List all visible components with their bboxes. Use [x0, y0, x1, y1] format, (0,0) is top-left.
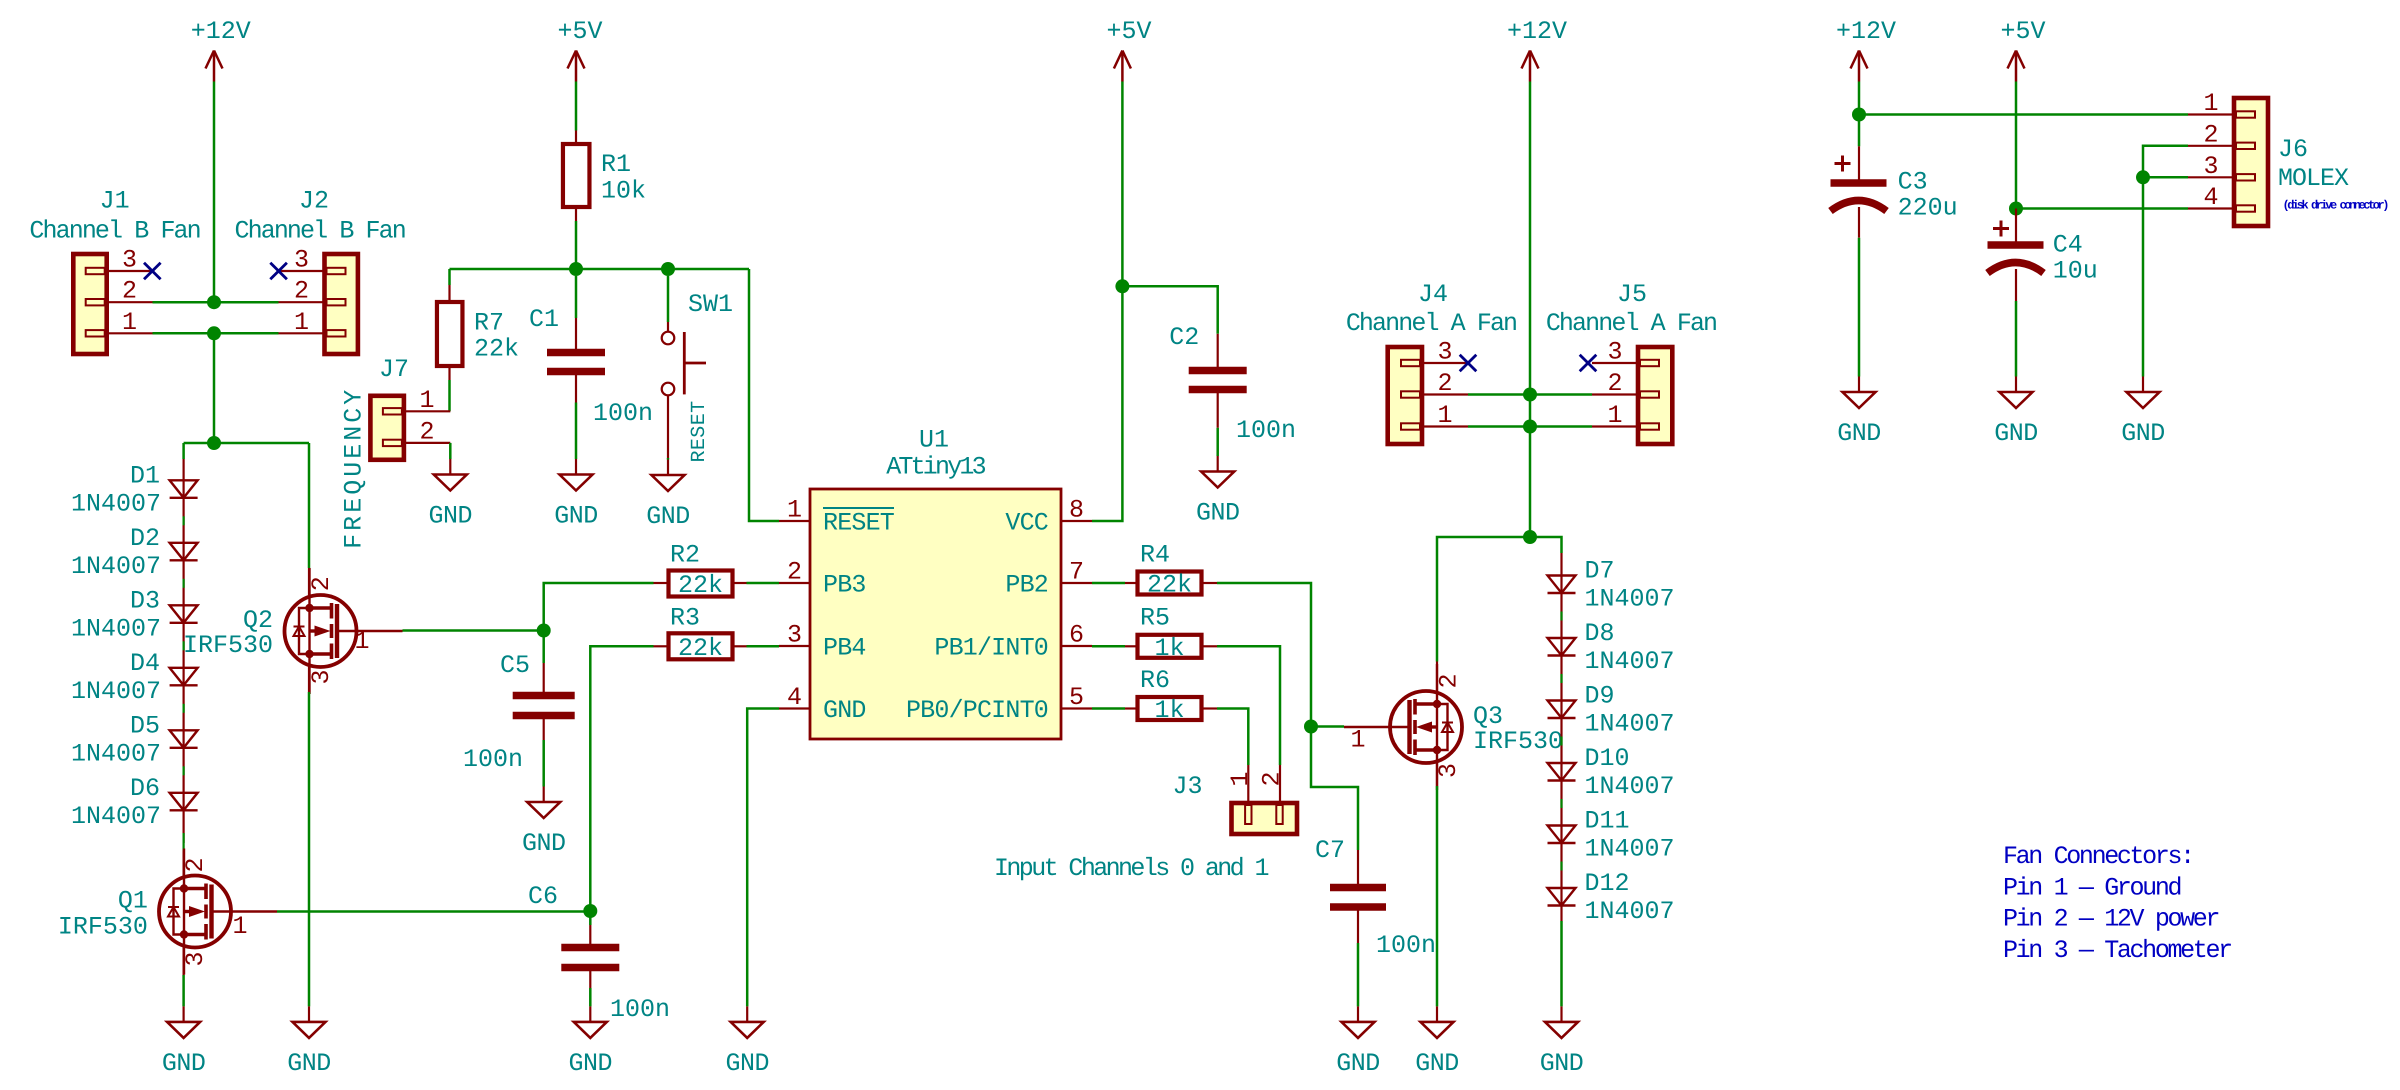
- svg-text:3: 3: [1607, 338, 1622, 367]
- svg-text:RESET: RESET: [688, 400, 711, 462]
- wire J6 pin2 down: [2143, 146, 2188, 178]
- svg-text:2: 2: [787, 558, 802, 587]
- wire C1 bottom to GND: [575, 372, 577, 403]
- wire node to R7: [448, 269, 451, 285]
- svg-text:GND: GND: [1196, 499, 1240, 528]
- svg-text:2: 2: [294, 277, 309, 306]
- svg-text:1N4007: 1N4007: [1585, 647, 1675, 676]
- svg-text:(disk drive connector): (disk drive connector): [2283, 199, 2389, 213]
- svg-text:GND: GND: [522, 829, 566, 858]
- svg-text:C2: C2: [1169, 323, 1199, 352]
- svg-text:PB1/INT0: PB1/INT0: [934, 634, 1048, 663]
- wire D6 to Q1 drain: [183, 833, 185, 851]
- junction C5 node: [537, 624, 551, 638]
- svg-text:100n: 100n: [610, 995, 670, 1024]
- svg-text:Channel A Fan: Channel A Fan: [1346, 309, 1516, 338]
- svg-text:GND: GND: [287, 1049, 331, 1078]
- no-connect J2 pin 3: [270, 263, 287, 280]
- connector J2: [325, 254, 358, 354]
- svg-text:1N4007: 1N4007: [1585, 897, 1675, 926]
- svg-text:1: 1: [1350, 726, 1365, 755]
- svg-text:VCC: VCC: [1005, 509, 1048, 538]
- wire node to C5: [542, 631, 545, 664]
- capacitor C2 100n: [1189, 371, 1247, 390]
- svg-text:D2: D2: [130, 524, 160, 553]
- svg-text:C4: C4: [2053, 231, 2083, 260]
- wire Q2 gate to C5 node: [403, 629, 544, 632]
- connector J5: [1638, 347, 1672, 444]
- svg-text:PB2: PB2: [1005, 571, 1048, 600]
- svg-text:1N4007: 1N4007: [71, 614, 161, 643]
- wire node to C4: [2015, 209, 2017, 246]
- wire to J6 pin1: [1859, 113, 2188, 116]
- wire node to U1 RESET: [749, 269, 779, 521]
- svg-text:1: 1: [419, 386, 434, 415]
- connector J3: [1232, 803, 1298, 834]
- wire R1 to node: [575, 207, 577, 221]
- power +5V (R1 rail): [568, 51, 585, 82]
- ground GND (J7): [429, 459, 473, 531]
- resistor R7 22k: [437, 302, 463, 366]
- junction C4 node: [2009, 202, 2023, 216]
- svg-text:1N4007: 1N4007: [1585, 835, 1675, 864]
- junction SW1: [661, 262, 675, 276]
- U1 pin 1: [779, 520, 810, 522]
- svg-text:D1: D1: [130, 461, 160, 490]
- wire C3 to GND: [1858, 207, 1860, 238]
- svg-text:22k: 22k: [1147, 571, 1192, 600]
- svg-text:J5: J5: [1617, 280, 1647, 309]
- wire Q1 source to GND: [183, 947, 185, 975]
- diode D4 1N4007: [170, 668, 198, 686]
- resistor R6 1k: [1138, 697, 1202, 720]
- ground GND (C5): [522, 787, 566, 859]
- wire Q2 drain pin: [308, 568, 310, 596]
- wire branch to C2: [1122, 286, 1217, 334]
- svg-text:2: 2: [307, 576, 336, 591]
- svg-text:100n: 100n: [1376, 931, 1436, 960]
- wire diode chain segments (left): [183, 459, 185, 843]
- wire R7 to J7 pin1: [448, 366, 450, 380]
- svg-text:2: 2: [122, 277, 137, 306]
- svg-text:Channel B Fan: Channel B Fan: [29, 217, 199, 246]
- diode D6 1N4007: [170, 793, 198, 811]
- U1 pin 3: [779, 645, 810, 647]
- svg-text:7: 7: [1069, 558, 1084, 587]
- diode D2 1N4007: [170, 543, 198, 561]
- svg-text:J4: J4: [1418, 280, 1448, 309]
- svg-text:GND: GND: [162, 1049, 206, 1078]
- wire to D1: [182, 443, 185, 459]
- svg-text:22k: 22k: [678, 634, 723, 663]
- wire SW1 to GND: [667, 458, 670, 460]
- wire rail to U1 VCC: [1092, 286, 1122, 521]
- wire C2 to GND: [1217, 390, 1219, 428]
- svg-text:GND: GND: [1994, 419, 2038, 448]
- resistor R3 22k: [669, 633, 733, 659]
- svg-text:U1: U1: [919, 426, 949, 455]
- wire Q1 gate to C6 node: [277, 910, 590, 913]
- wire U1 GND pin4: [747, 709, 779, 1007]
- connector J4: [1388, 347, 1422, 444]
- wire to Q2 drain: [308, 443, 311, 568]
- svg-text:PB0/PCINT0: PB0/PCINT0: [906, 696, 1048, 725]
- svg-text:3: 3: [181, 951, 210, 966]
- svg-text:220u: 220u: [1898, 194, 1958, 223]
- ground GND (C2): [1196, 456, 1240, 528]
- svg-text:GND: GND: [1415, 1049, 1459, 1078]
- transistor Q2 IRF530: [285, 568, 403, 694]
- svg-text:J1: J1: [100, 187, 130, 216]
- connector J7: [370, 396, 404, 460]
- svg-text:1k: 1k: [1154, 696, 1184, 725]
- ground GND (SW1): [646, 460, 690, 532]
- svg-text:D6: D6: [130, 774, 160, 803]
- svg-text:R2: R2: [670, 541, 700, 570]
- svg-text:3: 3: [787, 621, 802, 650]
- svg-text:2: 2: [419, 417, 434, 446]
- diode D7 1N4007: [1548, 576, 1576, 594]
- svg-text:1: 1: [232, 912, 247, 941]
- svg-text:D9: D9: [1585, 682, 1615, 711]
- svg-text:Fan Connectors:: Fan Connectors:: [2003, 842, 2193, 871]
- wire R6 to J3 pin1: [1217, 709, 1248, 766]
- power +12V (channel A rail): [1522, 51, 1539, 82]
- wire branch horizontal: [184, 442, 309, 445]
- svg-text:D5: D5: [130, 711, 160, 740]
- U1 pin 5: [1061, 707, 1092, 709]
- svg-text:100n: 100n: [463, 745, 523, 774]
- wire U1 to R5: [1092, 645, 1125, 648]
- svg-text:FREQUENCY: FREQUENCY: [340, 387, 369, 549]
- svg-text:10k: 10k: [601, 176, 646, 205]
- svg-text:3: 3: [122, 246, 137, 275]
- junction rail/pin1: [207, 326, 221, 340]
- wire C1 top: [575, 276, 578, 318]
- svg-text:GND: GND: [1540, 1049, 1584, 1078]
- svg-text:1N4007: 1N4007: [71, 677, 161, 706]
- wire C5 to GND: [543, 716, 545, 741]
- svg-text:Pin 2 — 12V power: Pin 2 — 12V power: [2003, 905, 2218, 934]
- wire R5 to J3 pin2: [1217, 646, 1280, 765]
- svg-text:D7: D7: [1585, 557, 1615, 586]
- svg-text:1: 1: [787, 496, 802, 525]
- svg-text:3: 3: [294, 246, 309, 275]
- transistor Q3 IRF530: [1344, 664, 1462, 790]
- svg-text:1N4007: 1N4007: [1585, 710, 1675, 739]
- wire R4 to Q3 gate node: [1217, 583, 1311, 727]
- junction R1/C1: [569, 262, 583, 276]
- svg-text:+5V: +5V: [557, 17, 602, 46]
- connector J1: [73, 254, 106, 354]
- capacitor C7 100n: [1330, 888, 1386, 908]
- svg-text:1: 1: [1226, 771, 1255, 786]
- svg-text:C7: C7: [1315, 836, 1345, 865]
- svg-text:Channel B Fan: Channel B Fan: [235, 217, 405, 246]
- svg-text:1k: 1k: [1154, 634, 1184, 663]
- ground GND (U1): [725, 1006, 769, 1078]
- svg-text:D4: D4: [130, 649, 160, 678]
- svg-text:J2: J2: [299, 187, 329, 216]
- wire node down to C7: [1311, 727, 1358, 851]
- wire R2 left to C5 node: [544, 583, 654, 631]
- wire +5V rail: [1121, 82, 1124, 287]
- junction diode branch: [207, 436, 221, 450]
- svg-text:1: 1: [354, 627, 369, 656]
- diode D12 1N4007: [1548, 888, 1576, 906]
- capacitor C5 100n: [513, 696, 575, 716]
- svg-text:2: 2: [1607, 369, 1622, 398]
- junction Q3 gate node: [1304, 720, 1318, 734]
- no-connect J4 pin 3: [1460, 355, 1477, 372]
- svg-text:Channel A Fan: Channel A Fan: [1546, 309, 1716, 338]
- svg-text:22k: 22k: [678, 571, 723, 600]
- switch SW1 RESET: [667, 276, 670, 322]
- svg-text:3: 3: [2203, 152, 2218, 181]
- svg-text:1N4007: 1N4007: [71, 802, 161, 831]
- svg-text:100n: 100n: [593, 399, 653, 428]
- svg-text:Pin 3 — Tachometer: Pin 3 — Tachometer: [2003, 936, 2231, 965]
- svg-text:R6: R6: [1140, 666, 1170, 695]
- junction rail/pin2: [207, 295, 221, 309]
- svg-text:C1: C1: [529, 305, 559, 334]
- wire node horizontal: [450, 268, 750, 271]
- svg-text:1N4007: 1N4007: [71, 739, 161, 768]
- wire R3 right to U1 PB4: [747, 645, 780, 648]
- svg-text:Pin 1 — Ground: Pin 1 — Ground: [2003, 873, 2180, 902]
- wire node to C6: [589, 911, 592, 925]
- ground GND (diode chain): [1540, 1006, 1584, 1078]
- power +12V (molex): [1851, 51, 1868, 82]
- diode D1 1N4007: [170, 480, 198, 498]
- svg-text:6: 6: [1069, 621, 1084, 650]
- svg-text:J6: J6: [2278, 135, 2308, 164]
- capacitor C1 100n: [547, 353, 605, 372]
- svg-text:3: 3: [1437, 338, 1452, 367]
- capacitor C4 10u (polarized): [1988, 245, 2044, 273]
- svg-text:3: 3: [1434, 763, 1463, 778]
- svg-text:+5V: +5V: [1106, 17, 1151, 46]
- svg-text:+12V: +12V: [1507, 17, 1567, 46]
- svg-text:GND: GND: [823, 696, 866, 725]
- svg-text:PB4: PB4: [823, 634, 866, 663]
- svg-text:R1: R1: [601, 150, 631, 179]
- power +5V (molex): [2008, 51, 2025, 82]
- U1 pin 6: [1061, 645, 1092, 647]
- svg-text:22k: 22k: [474, 335, 519, 364]
- junction rail/pin2 (A): [1523, 388, 1537, 402]
- wire branch to Q3 drain: [1437, 537, 1530, 662]
- svg-text:PB3: PB3: [823, 571, 866, 600]
- svg-text:GND: GND: [554, 502, 598, 531]
- svg-text:1: 1: [2203, 89, 2218, 118]
- connector J6 MOLEX: [2234, 98, 2268, 226]
- resistor R5 1k: [1138, 635, 1202, 658]
- diode D5 1N4007: [170, 730, 198, 748]
- svg-text:4: 4: [2203, 183, 2218, 212]
- svg-text:D8: D8: [1585, 619, 1615, 648]
- no-connect J5 pin 3: [1580, 355, 1597, 372]
- ground GND (C7): [1336, 1006, 1380, 1078]
- svg-text:Q1: Q1: [118, 887, 148, 916]
- svg-text:D3: D3: [130, 586, 160, 615]
- U1 pin 2: [779, 582, 810, 584]
- svg-text:IRF530: IRF530: [183, 631, 273, 660]
- wire J4.2-J5.2: [1468, 393, 1592, 396]
- svg-text:J7: J7: [379, 355, 409, 384]
- svg-text:2: 2: [1258, 771, 1287, 786]
- svg-text:Input Channels 0 and 1: Input Channels 0 and 1: [994, 854, 1268, 883]
- svg-text:+5V: +5V: [2000, 17, 2045, 46]
- resistor R1 10k: [563, 144, 590, 207]
- power +12V (left rail): [206, 51, 223, 82]
- svg-text:GND: GND: [2121, 419, 2165, 448]
- capacitor C6 100n: [561, 948, 619, 968]
- U1 pin 7: [1061, 582, 1092, 584]
- IC U1 ATtiny13: [810, 489, 1061, 739]
- ground GND (C3): [1837, 377, 1881, 449]
- wire R3 left to C6 node: [590, 646, 653, 911]
- wire node to C3: [1858, 115, 1861, 147]
- wire J1.1-J2.1: [153, 332, 279, 335]
- wire Q3 source to GND: [1436, 763, 1438, 786]
- wire R2 right to U1 PB3: [747, 582, 780, 585]
- svg-text:GND: GND: [725, 1049, 769, 1078]
- svg-text:D10: D10: [1585, 744, 1630, 773]
- svg-text:1N4007: 1N4007: [71, 489, 161, 518]
- svg-text:C6: C6: [528, 882, 558, 911]
- svg-text:2: 2: [181, 857, 210, 872]
- wire J1.2-J2.2: [153, 301, 279, 304]
- svg-text:RESET: RESET: [823, 509, 895, 538]
- power +5V (VCC rail): [1114, 51, 1131, 82]
- wire J7 pin2 to GND: [449, 443, 452, 459]
- svg-text:D12: D12: [1585, 869, 1630, 898]
- svg-text:1N4007: 1N4007: [71, 552, 161, 581]
- svg-text:D11: D11: [1585, 807, 1630, 836]
- svg-text:4: 4: [787, 683, 802, 712]
- U1 pin 4: [779, 707, 810, 709]
- ground GND (Q1 source): [162, 1006, 206, 1078]
- svg-text:J3: J3: [1172, 772, 1202, 801]
- ground GND (C4): [1994, 377, 2038, 449]
- wire +12V rail down: [1529, 82, 1532, 538]
- svg-text:C5: C5: [500, 651, 530, 680]
- wire branch to D7: [1530, 537, 1562, 553]
- resistor R2 22k: [669, 571, 733, 597]
- wire Q2 source to GND: [308, 666, 310, 692]
- svg-text:ATtiny13: ATtiny13: [886, 453, 985, 482]
- svg-text:100n: 100n: [1236, 416, 1296, 445]
- svg-text:R7: R7: [474, 309, 504, 338]
- wire U1 to R4: [1092, 582, 1125, 585]
- diode D11 1N4007: [1548, 826, 1576, 844]
- resistor R4 22k: [1138, 572, 1202, 595]
- svg-text:1: 1: [1607, 401, 1622, 430]
- svg-text:IRF530: IRF530: [58, 912, 148, 941]
- svg-text:8: 8: [1069, 496, 1084, 525]
- junction Q3/diode branch: [1523, 530, 1537, 544]
- wire +5V rail to C4: [2015, 82, 2018, 209]
- junction C3 node: [1852, 108, 1866, 122]
- capacitor C3 220u (polarized): [1831, 183, 1887, 211]
- svg-text:5: 5: [1069, 683, 1084, 712]
- svg-text:1: 1: [294, 308, 309, 337]
- wire node to Q3 gate: [1311, 725, 1344, 728]
- svg-text:+12V: +12V: [191, 17, 251, 46]
- svg-text:IRF530: IRF530: [1473, 727, 1563, 756]
- diode D10 1N4007: [1548, 763, 1576, 781]
- svg-text:GND: GND: [569, 1049, 613, 1078]
- junction rail/pin1 (A): [1523, 420, 1537, 434]
- wire to GND (J6): [2142, 177, 2145, 376]
- svg-text:+12V: +12V: [1836, 17, 1896, 46]
- svg-text:R5: R5: [1140, 604, 1170, 633]
- transistor Q1 IRF530: [159, 849, 277, 975]
- wire to J6 pin4: [2016, 207, 2188, 210]
- wire C4 to GND: [2015, 269, 2017, 301]
- svg-text:2: 2: [1437, 369, 1452, 398]
- svg-text:1: 1: [122, 308, 137, 337]
- wire C6 to GND: [589, 968, 591, 989]
- svg-text:GND: GND: [646, 502, 690, 531]
- diode D3 1N4007: [170, 605, 198, 623]
- wire diode chain segments (right): [1560, 553, 1562, 921]
- wire +5V to R1: [575, 82, 578, 131]
- diode D9 1N4007: [1548, 701, 1576, 719]
- junction pin2/pin3: [2136, 170, 2150, 184]
- junction C2 branch: [1115, 279, 1129, 293]
- U1 pin 8: [1061, 520, 1092, 522]
- ground GND (J6): [2121, 377, 2165, 449]
- svg-text:R4: R4: [1140, 541, 1170, 570]
- ground GND (Q3 source): [1415, 1006, 1459, 1078]
- svg-text:GND: GND: [1336, 1049, 1380, 1078]
- wire J6 pin3: [2143, 176, 2188, 179]
- svg-text:2: 2: [2203, 120, 2218, 149]
- no-connect J1 pin 3: [144, 263, 161, 280]
- svg-text:1N4007: 1N4007: [1585, 772, 1675, 801]
- wire rail down to diode branch: [213, 333, 216, 443]
- ground GND (C1): [554, 459, 598, 531]
- svg-text:1: 1: [1437, 401, 1452, 430]
- svg-text:SW1: SW1: [688, 290, 733, 319]
- svg-text:C3: C3: [1898, 168, 1928, 197]
- svg-text:R3: R3: [670, 604, 700, 633]
- svg-text:3: 3: [307, 669, 336, 684]
- svg-text:GND: GND: [429, 502, 473, 531]
- wire +12V to C3 node: [1858, 82, 1861, 115]
- svg-text:MOLEX: MOLEX: [2278, 164, 2349, 193]
- ground GND (C6): [569, 1006, 613, 1078]
- svg-text:GND: GND: [1837, 419, 1881, 448]
- svg-text:2: 2: [1434, 673, 1463, 688]
- wire J4.1-J5.1: [1468, 425, 1592, 428]
- ground GND (Q2 source): [287, 1006, 331, 1078]
- wire D12 to GND: [1560, 921, 1563, 1006]
- svg-text:10u: 10u: [2053, 257, 2098, 286]
- wire U1 to R6: [1092, 707, 1125, 710]
- wire C7 to GND: [1357, 907, 1359, 943]
- svg-text:1N4007: 1N4007: [1585, 585, 1675, 614]
- wire +12V rail down to J1/J2: [213, 82, 216, 303]
- junction C6 node: [583, 904, 597, 918]
- diode D8 1N4007: [1548, 638, 1576, 656]
